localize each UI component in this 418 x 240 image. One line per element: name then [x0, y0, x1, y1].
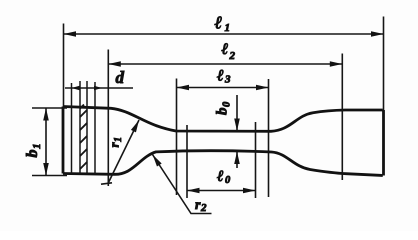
label r2: [195, 198, 207, 214]
svg-text:2: 2: [200, 202, 207, 214]
label l3: [216, 68, 231, 86]
wire: right end edge: [382, 110, 385, 176]
svg-text:ℓ: ℓ: [215, 13, 223, 33]
svg-text:0: 0: [225, 175, 231, 186]
wire: bottom profile: [63, 151, 383, 176]
l0 right gauge mark line: [255, 122, 257, 198]
wire: top profile (grip, fillet r1, gauge, fillet, right grip): [63, 107, 383, 132]
label l2: [221, 41, 236, 62]
l0 left gauge mark line: [186, 125, 188, 198]
dimension b1: extension lines and vertical line: [32, 107, 67, 109]
svg-text:ℓ: ℓ: [216, 68, 224, 85]
svg-text:d: d: [116, 68, 125, 87]
svg-text:2: 2: [229, 50, 236, 62]
dimension L1 line: [64, 33, 384, 35]
label b1 (rotated): [24, 144, 43, 158]
dimension L3 line: [177, 87, 269, 89]
r1 center tick: [101, 183, 112, 184]
specimen outline: dog-bone tensile bar: [63, 107, 384, 176]
wire: left end edge: [62, 107, 65, 174]
svg-text:1: 1: [225, 22, 231, 34]
L3 right extension line: [268, 79, 270, 197]
grip vertical line A: [71, 83, 73, 174]
svg-text:0: 0: [222, 101, 233, 107]
leader r1: [108, 120, 139, 184]
L1 left extension line: [63, 24, 65, 107]
label r1 (rotated): [107, 137, 125, 148]
svg-text:3: 3: [224, 74, 231, 86]
hatched strip (grip marking): [80, 81, 87, 174]
label l0: [217, 168, 231, 186]
L3 left extension line: [176, 79, 178, 196]
label b0 (rotated): [215, 101, 233, 115]
L1 right extension line: [383, 17, 385, 111]
dimension b0 vertical line with arrows: [236, 95, 238, 131]
L2 right extension line: [341, 54, 343, 181]
label l1: [215, 13, 231, 35]
svg-text:ℓ: ℓ: [217, 168, 224, 185]
leader r2 with shelf: [153, 155, 212, 214]
grip vertical line B (d extension): [94, 82, 96, 174]
svg-text:ℓ: ℓ: [221, 41, 229, 58]
svg-text:b: b: [24, 150, 41, 158]
svg-text:b: b: [215, 107, 231, 115]
svg-text:1: 1: [113, 137, 124, 142]
dimension d line: [65, 87, 133, 89]
svg-text:1: 1: [31, 144, 43, 150]
tangent / L2 left extension line: [107, 50, 109, 187]
dimension l0 line: [187, 190, 256, 192]
dimension L2 line: [108, 63, 342, 65]
